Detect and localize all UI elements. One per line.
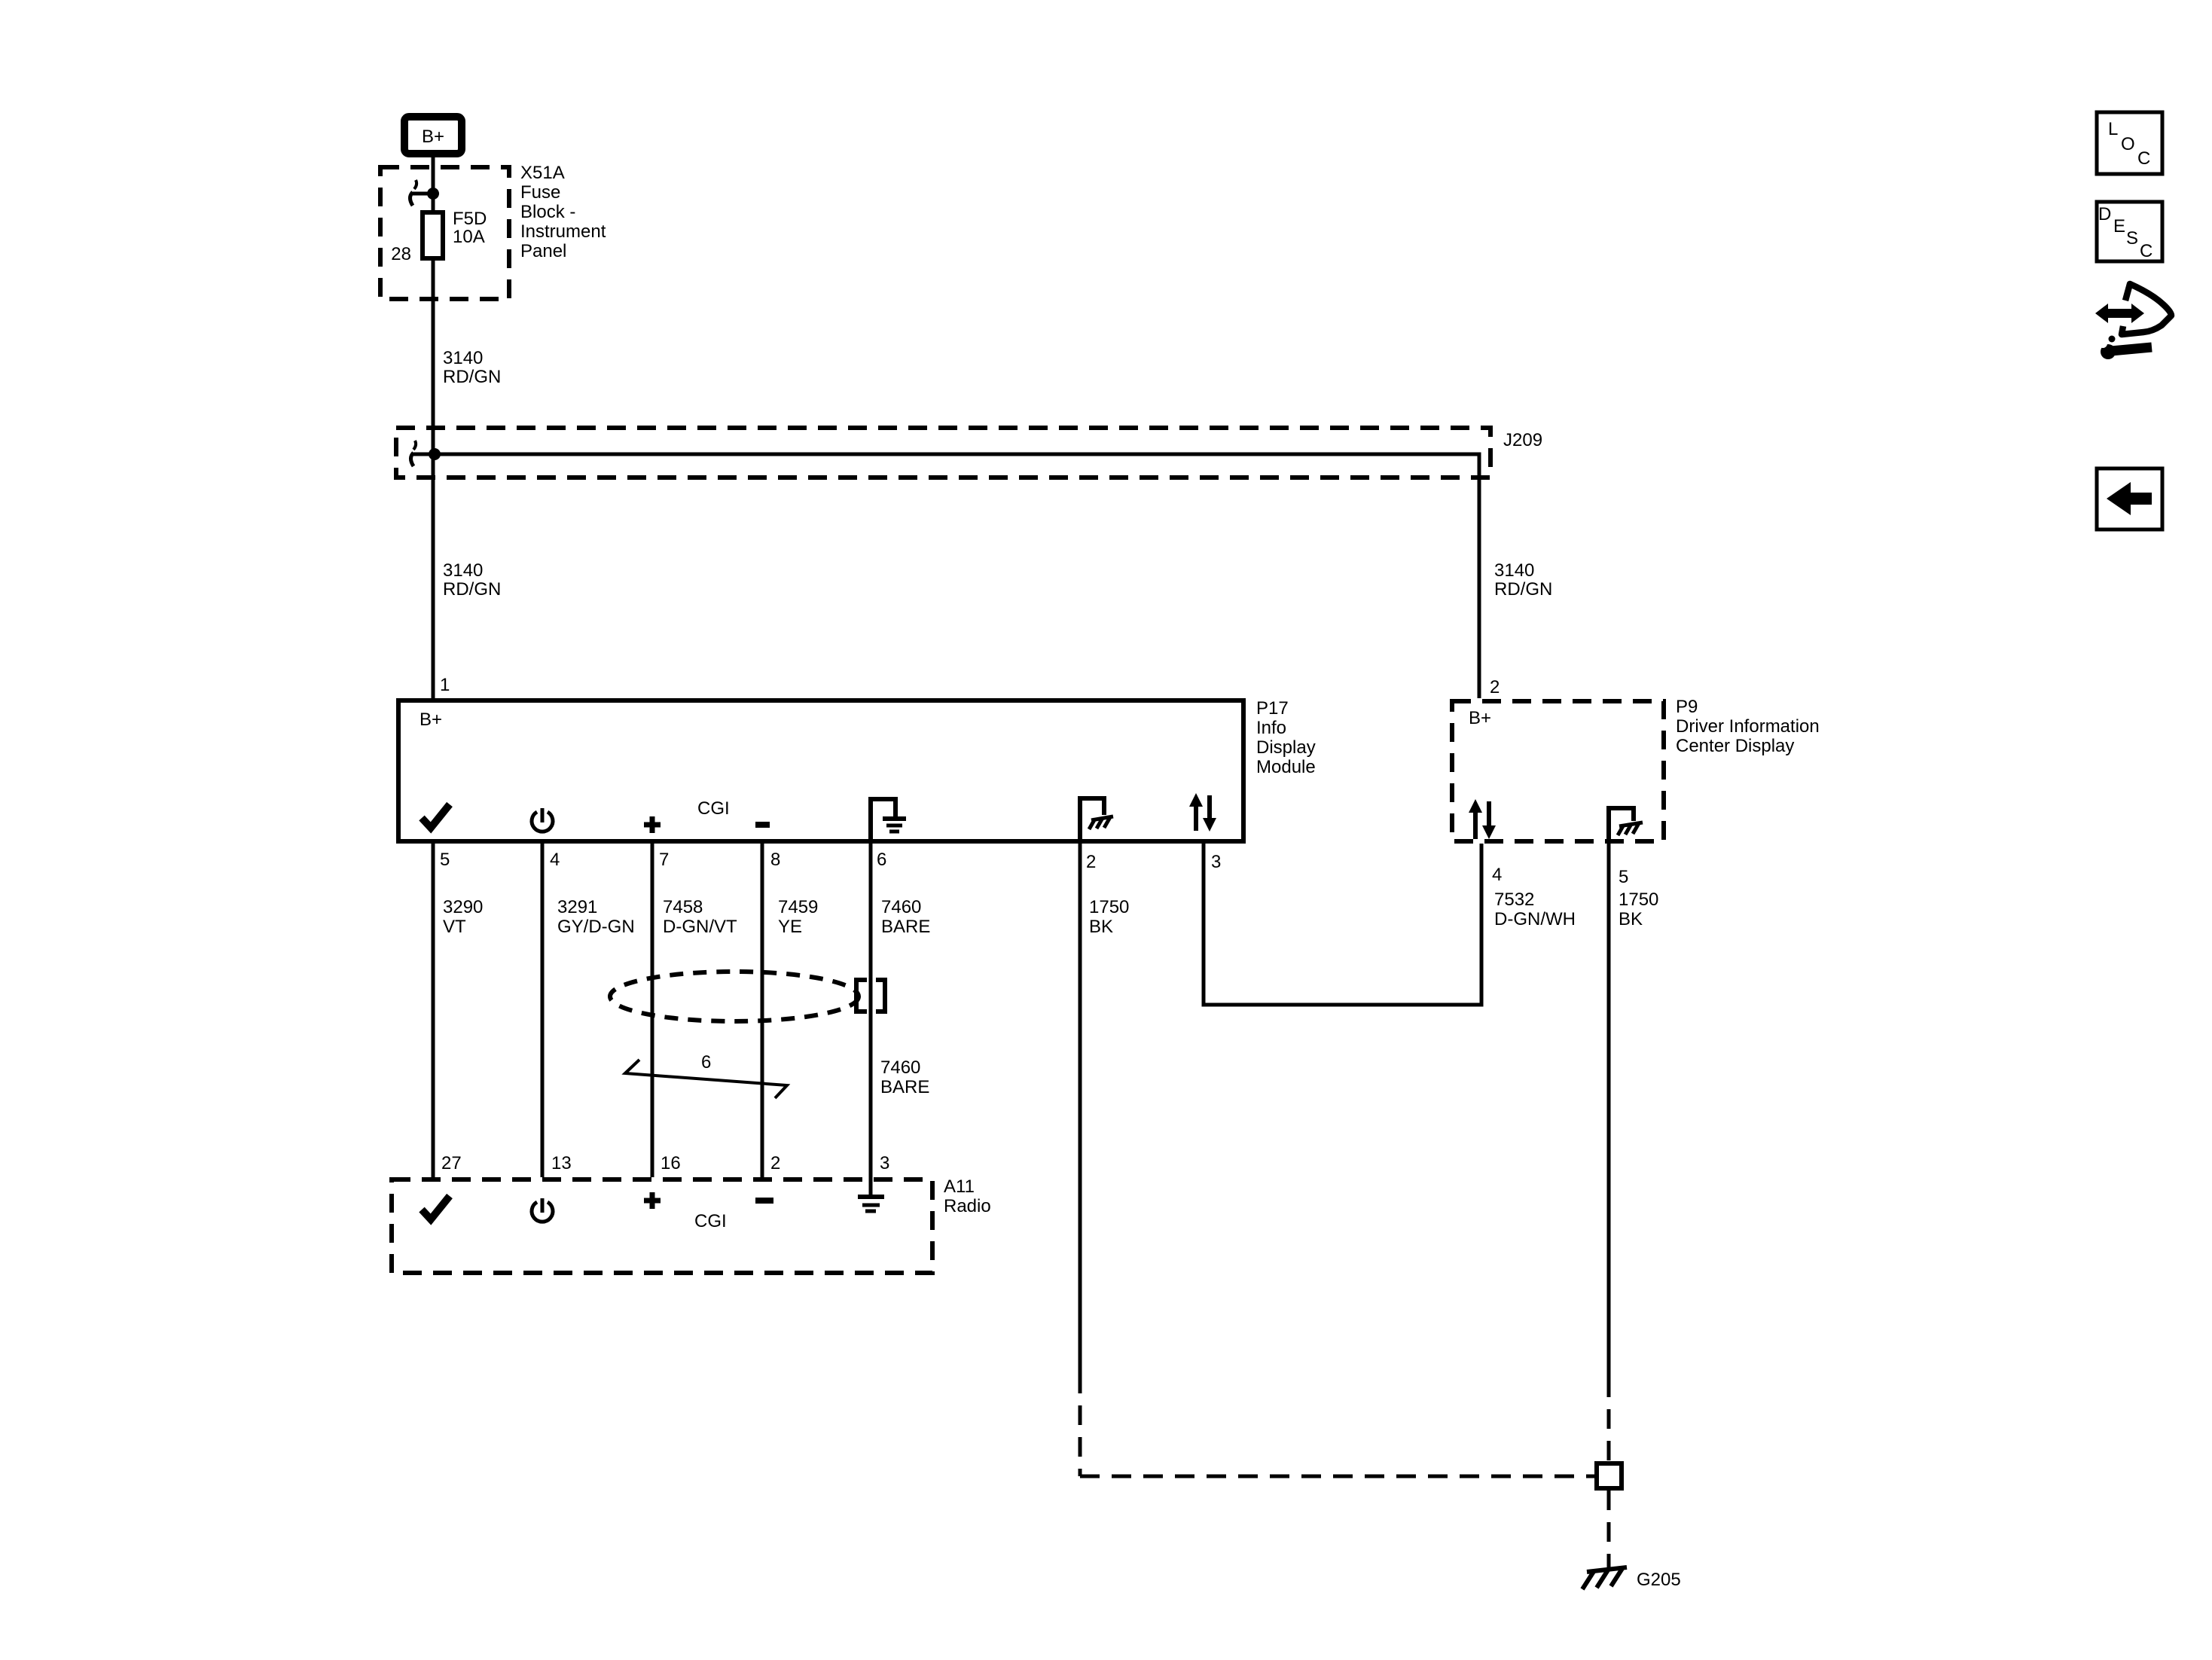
svg-text:RD/GN: RD/GN <box>443 367 501 387</box>
harness count arrow with 6 <box>625 1060 787 1098</box>
svg-text:28: 28 <box>391 244 411 264</box>
svg-text:BK: BK <box>1089 917 1113 937</box>
svg-text:8: 8 <box>770 850 780 870</box>
svg-text:BARE: BARE <box>881 917 930 937</box>
svg-text:C: C <box>2137 148 2150 169</box>
svg-text:RD/GN: RD/GN <box>443 579 501 600</box>
label 3291 GY/D-GN <box>557 897 635 937</box>
svg-text:L: L <box>2108 119 2118 139</box>
connector terminal hook at J209 <box>411 441 435 466</box>
wire J209 to P9 pin 2 <box>435 454 1479 698</box>
label 7460 BARE lower <box>880 1057 929 1097</box>
svg-text:10A: 10A <box>453 227 485 247</box>
svg-text:16: 16 <box>661 1153 681 1173</box>
power feed B+ symbol <box>404 117 462 154</box>
svg-text:Panel: Panel <box>520 241 566 261</box>
label P9 Driver Information Center Display <box>1676 697 1820 756</box>
wire B+ to fuse <box>432 157 435 212</box>
twisted pair ellipse <box>610 972 859 1021</box>
svg-text:E: E <box>2113 216 2125 236</box>
svg-text:D: D <box>2098 204 2111 224</box>
label 3140 RD/GN lower left <box>443 560 501 600</box>
svg-text:27: 27 <box>441 1153 462 1173</box>
svg-text:Info: Info <box>1256 718 1286 738</box>
svg-text:VT: VT <box>443 917 466 937</box>
plus symbol radio pin 16 <box>644 1192 661 1209</box>
svg-text:Radio: Radio <box>944 1196 991 1216</box>
label P17 Info Display Module <box>1256 698 1316 777</box>
svg-text:3140: 3140 <box>443 560 483 581</box>
svg-text:Block -: Block - <box>520 202 575 222</box>
svg-text:3291: 3291 <box>557 897 597 917</box>
svg-text:B+: B+ <box>1469 708 1491 728</box>
ground G205 symbol <box>1582 1567 1627 1589</box>
svg-text:7458: 7458 <box>663 897 703 917</box>
svg-text:O: O <box>2121 134 2135 154</box>
svg-text:D-GN/VT: D-GN/VT <box>663 917 737 937</box>
label 7460 BARE upper <box>881 897 930 937</box>
back arrow icon box <box>2097 468 2162 529</box>
label 3140 RD/GN upper <box>443 348 501 387</box>
svg-text:2: 2 <box>1490 677 1500 697</box>
chassis ground symbol P9 pin 5 <box>1609 808 1643 844</box>
svg-text:B+: B+ <box>422 127 444 147</box>
svg-text:CGI: CGI <box>694 1211 727 1231</box>
svg-text:BK: BK <box>1619 909 1643 929</box>
junction dot J209 <box>429 448 441 460</box>
shield bracket right <box>876 980 885 1012</box>
label X51A Fuse Block - Instrument Panel <box>520 163 606 261</box>
wire 1750 BK P9 pin5 to G205 <box>1607 844 1611 1378</box>
fuse block X51A dashed box <box>380 167 509 299</box>
svg-text:YE: YE <box>778 917 802 937</box>
label F5D 10A <box>453 209 487 247</box>
svg-text:CGI: CGI <box>697 798 730 819</box>
splice J209 dashed box <box>396 428 1490 478</box>
ground splice square <box>1597 1463 1622 1488</box>
shield bracket left <box>856 980 867 1012</box>
connector terminal hook at fuse block <box>410 180 434 206</box>
svg-text:13: 13 <box>551 1153 572 1173</box>
svg-text:3140: 3140 <box>1494 560 1534 581</box>
svg-text:J209: J209 <box>1503 430 1542 450</box>
svg-text:Center Display: Center Display <box>1676 736 1794 756</box>
wire 7458 D-GN/VT P17 pin7 to radio pin16 <box>651 844 654 1177</box>
svg-text:Driver Information: Driver Information <box>1676 716 1820 737</box>
radio A11 dashed box <box>392 1179 932 1273</box>
label A11 Radio <box>944 1176 991 1216</box>
wire 3290 VT P17 pin5 to radio pin27 <box>432 844 435 1177</box>
svg-text:P17: P17 <box>1256 698 1289 719</box>
svg-text:7460: 7460 <box>880 1057 920 1078</box>
label 3140 RD/GN right <box>1494 560 1552 600</box>
svg-text:5: 5 <box>440 850 450 870</box>
svg-text:3140: 3140 <box>443 348 483 368</box>
svg-text:GY/D-GN: GY/D-GN <box>557 917 635 937</box>
earth ground symbol P17 pin 6 <box>871 799 906 844</box>
wire 7460 BARE drain P17 pin6 to radio pin3 <box>869 844 873 1177</box>
minus symbol P17 pin 8 <box>755 822 770 828</box>
DESC icon box <box>2097 202 2162 261</box>
wire below splice square <box>1607 1491 1611 1568</box>
svg-text:1750: 1750 <box>1619 890 1658 910</box>
svg-text:3290: 3290 <box>443 897 483 917</box>
wire 1750 BK P17 pin2 ground wire <box>1079 844 1082 1374</box>
svg-text:Display: Display <box>1256 737 1316 758</box>
module P17 Info Display Module box <box>398 700 1243 841</box>
label 1750 BK right <box>1619 890 1658 929</box>
svg-text:4: 4 <box>550 850 560 870</box>
svg-text:6: 6 <box>877 850 886 870</box>
svg-text:7460: 7460 <box>881 897 921 917</box>
svg-text:P9: P9 <box>1676 697 1698 717</box>
earth ground symbol radio pin 3 <box>858 1177 884 1211</box>
svg-text:7459: 7459 <box>778 897 818 917</box>
svg-text:D-GN/WH: D-GN/WH <box>1494 909 1576 929</box>
wire 3291 GY/D-GN P17 pin4 to radio pin13 <box>541 844 545 1177</box>
svg-text:2: 2 <box>770 1153 780 1173</box>
svg-text:Fuse: Fuse <box>520 182 560 203</box>
svg-text:C: C <box>2140 241 2153 261</box>
serial data arrows symbol P9 pin 4 <box>1469 799 1496 839</box>
svg-text:3: 3 <box>880 1153 889 1173</box>
serial data arrows symbol P17 pin 3 <box>1189 793 1216 832</box>
svg-text:2: 2 <box>1086 852 1096 872</box>
harness routing icon (double arrow with wrench) <box>2095 284 2171 359</box>
power symbol radio pin 13 <box>532 1198 553 1222</box>
label 1750 BK left <box>1089 897 1129 937</box>
svg-text:B+: B+ <box>420 709 442 730</box>
wire 7459 YE P17 pin8 to radio pin2 <box>761 844 764 1177</box>
svg-text:4: 4 <box>1492 865 1502 885</box>
minus symbol radio pin 2 <box>755 1198 773 1204</box>
LOC icon box <box>2097 112 2162 174</box>
svg-text:RD/GN: RD/GN <box>1494 579 1552 600</box>
svg-text:A11: A11 <box>944 1176 975 1197</box>
checkmark symbol P17 pin 5 <box>422 804 450 828</box>
junction dot in fuse block <box>427 188 439 200</box>
svg-text:1: 1 <box>440 675 450 695</box>
svg-text:Module: Module <box>1256 757 1316 777</box>
checkmark symbol radio pin 27 <box>422 1196 450 1219</box>
label 7459 YE <box>778 897 818 937</box>
chassis ground symbol P17 pin 2 <box>1080 798 1113 844</box>
svg-text:Instrument: Instrument <box>520 221 606 242</box>
svg-text:1750: 1750 <box>1089 897 1129 917</box>
svg-text:6: 6 <box>701 1052 711 1073</box>
svg-text:X51A: X51A <box>520 163 565 183</box>
svg-text:7: 7 <box>659 850 669 870</box>
label 7458 D-GN/VT <box>663 897 737 937</box>
fuse F5D 10A <box>423 212 443 258</box>
wire 3140 RD/GN fuse to P17 pin 1 <box>432 258 435 698</box>
svg-text:BARE: BARE <box>880 1077 929 1097</box>
svg-text:5: 5 <box>1619 867 1628 887</box>
svg-text:F5D: F5D <box>453 209 487 229</box>
wire 7532 D-GN/WH P17 pin3 to P9 pin4 <box>1204 844 1481 1005</box>
svg-text:7532: 7532 <box>1494 890 1534 910</box>
module P9 Driver Information Center Display dashed box <box>1452 701 1664 841</box>
plus symbol P17 pin 7 <box>644 816 661 833</box>
svg-text:S: S <box>2126 228 2138 249</box>
label 7532 D-GN/WH <box>1494 890 1576 929</box>
svg-text:G205: G205 <box>1637 1570 1681 1590</box>
power symbol P17 pin 4 <box>532 808 553 832</box>
label 3290 VT <box>443 897 483 937</box>
svg-text:3: 3 <box>1211 852 1221 872</box>
